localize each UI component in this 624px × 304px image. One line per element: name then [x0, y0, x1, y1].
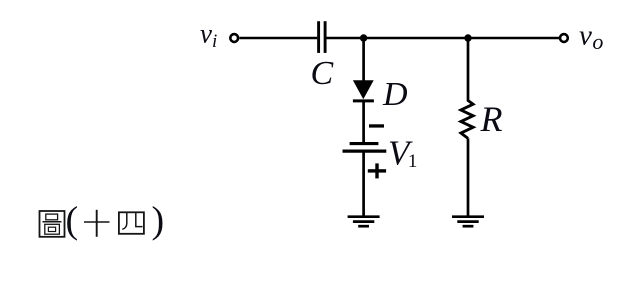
svg-text:vo: vo	[579, 19, 603, 54]
wire: node B down to resistor	[467, 38, 470, 102]
wire: resistor to right ground	[467, 138, 470, 216]
wire: node A down to diode	[362, 38, 365, 81]
diode D (anode top, cathode bar below)	[353, 80, 374, 101]
svg-text:V1: V1	[388, 134, 417, 173]
capacitor C	[319, 21, 326, 53]
node vo output terminal	[560, 34, 568, 42]
caption: open parenthesis	[66, 200, 79, 242]
label D	[382, 76, 408, 113]
caption: character 四	[119, 212, 144, 234]
caption: character 十	[84, 210, 110, 237]
svg-text:R: R	[480, 99, 503, 139]
node junction B (resistor branch)	[464, 34, 471, 41]
label vo	[579, 19, 603, 54]
wire: battery to left ground	[362, 151, 365, 216]
value label C	[311, 55, 334, 92]
svg-text:D: D	[382, 76, 408, 113]
node vi input terminal	[230, 34, 238, 42]
svg-text:vi: vi	[200, 19, 217, 53]
caption: close parenthesis	[152, 200, 165, 242]
wire: diode cathode to battery	[362, 101, 365, 143]
label vi	[200, 19, 217, 53]
wire: capacitor to output terminal (through nodes)	[327, 37, 561, 40]
label V1	[388, 134, 417, 173]
caption: character 圖	[40, 211, 65, 237]
ground (right, earth symbol)	[452, 217, 484, 227]
svg-text:(: (	[66, 200, 79, 242]
svg-text:C: C	[311, 55, 334, 92]
wire: input terminal to capacitor	[240, 37, 318, 40]
battery V1 plus polarity sign	[368, 163, 386, 178]
label R	[480, 99, 503, 139]
svg-text:): )	[152, 200, 165, 242]
ground (left, earth symbol)	[348, 217, 380, 227]
battery V1 minus polarity sign	[369, 124, 384, 127]
battery V1 (short plate top = minus, long plate bottom = plus)	[343, 144, 387, 152]
node junction A (diode branch)	[360, 34, 367, 41]
resistor R zigzag	[461, 101, 473, 139]
